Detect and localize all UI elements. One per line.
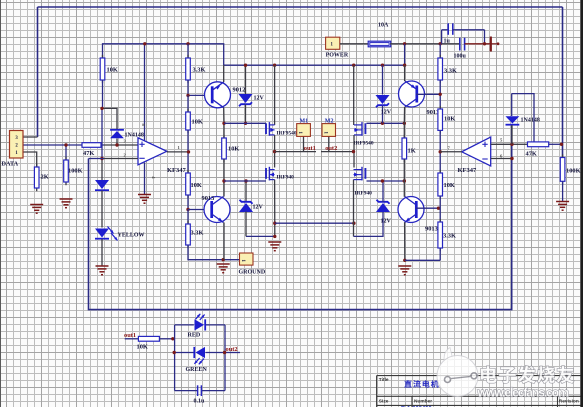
svg-text:RED: RED <box>188 333 201 339</box>
svg-text:www.elecfans.com: www.elecfans.com <box>477 386 570 400</box>
svg-text:1N4148: 1N4148 <box>125 133 144 139</box>
svg-text:100K: 100K <box>68 168 83 175</box>
svg-text:12V: 12V <box>381 219 392 225</box>
svg-text:out1: out1 <box>304 145 316 152</box>
svg-text:IRF9540: IRF9540 <box>277 131 297 137</box>
svg-text:47K: 47K <box>83 150 94 157</box>
svg-text:KF347: KF347 <box>458 167 478 174</box>
svg-text:10K: 10K <box>192 119 203 126</box>
svg-text:out1: out1 <box>124 332 136 339</box>
svg-text:12V: 12V <box>254 96 265 102</box>
svg-text:out2: out2 <box>226 346 238 353</box>
svg-text:0.1u: 0.1u <box>194 399 206 405</box>
svg-text:3.3K: 3.3K <box>191 230 204 237</box>
svg-text:IRF9540: IRF9540 <box>354 141 374 147</box>
svg-text:12V: 12V <box>253 205 264 211</box>
svg-text:GREEN: GREEN <box>186 367 208 373</box>
svg-text:Title: Title <box>379 377 389 383</box>
svg-text:IRF940: IRF940 <box>355 191 373 197</box>
svg-text:10K: 10K <box>444 182 455 189</box>
svg-text:100K: 100K <box>566 168 581 175</box>
svg-text:1N4148: 1N4148 <box>521 118 540 124</box>
svg-text:9013: 9013 <box>202 195 215 202</box>
svg-text:9013: 9013 <box>425 226 438 233</box>
svg-text:10A: 10A <box>378 23 389 29</box>
svg-text:3.3K: 3.3K <box>193 67 206 74</box>
svg-text:Size: Size <box>379 399 389 405</box>
svg-text:9012: 9012 <box>233 87 246 94</box>
svg-text:3.3K: 3.3K <box>443 233 456 240</box>
svg-text:KF347: KF347 <box>167 167 187 174</box>
svg-text:IRF940: IRF940 <box>277 175 295 181</box>
svg-text:47K: 47K <box>526 151 537 158</box>
svg-text:2K: 2K <box>41 174 49 181</box>
svg-text:GROUND: GROUND <box>239 270 266 276</box>
svg-text:1u: 1u <box>444 39 451 45</box>
svg-text:10K: 10K <box>137 344 148 351</box>
svg-text:Number: Number <box>414 399 432 405</box>
svg-text:3.3K: 3.3K <box>444 68 457 75</box>
svg-text:100u: 100u <box>454 54 467 60</box>
svg-text:POWER: POWER <box>326 53 349 59</box>
svg-text:out2: out2 <box>325 145 337 152</box>
svg-text:10K: 10K <box>107 67 118 74</box>
svg-text:10K: 10K <box>444 116 455 123</box>
svg-text:10K: 10K <box>228 146 239 153</box>
svg-text:M1: M1 <box>300 118 309 124</box>
svg-text:1K: 1K <box>408 148 416 155</box>
svg-text:YELLOW: YELLOW <box>118 233 145 239</box>
svg-text:12V: 12V <box>381 110 392 116</box>
svg-text:10K: 10K <box>191 182 202 189</box>
svg-text:DATA: DATA <box>2 161 19 168</box>
svg-text:M2: M2 <box>325 118 334 124</box>
